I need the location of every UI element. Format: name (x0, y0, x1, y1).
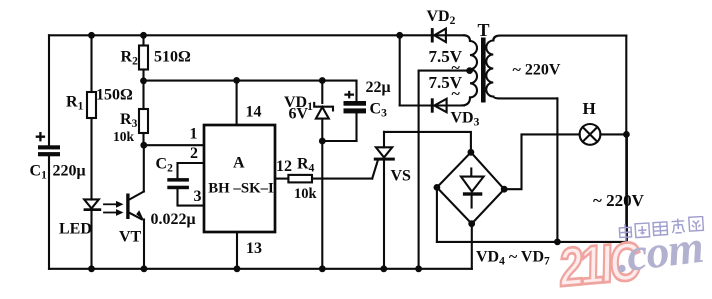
svg-text:A: A (233, 155, 245, 172)
diode VD3 (400, 98, 464, 112)
svg-text:C1: C1 (30, 163, 48, 182)
svg-text:22μ: 22μ (366, 79, 391, 96)
wire: R2 branch from top rail (142, 35, 144, 45)
svg-text:R3: R3 (120, 111, 138, 130)
junction R1 top rail (88, 32, 95, 39)
svg-text:C2: C2 (156, 156, 174, 175)
svg-text:12: 12 (276, 158, 292, 175)
svg-text:220μ: 220μ (53, 163, 86, 180)
svg-text:~: ~ (452, 86, 461, 103)
svg-text:T: T (478, 20, 490, 40)
wire: node to IC pin 1 (144, 144, 204, 146)
wire: VS anode to bridge top (384, 132, 471, 152)
junction bridge left corner (434, 184, 441, 191)
junction VT emitter ground (141, 265, 148, 272)
wire: bottom right corner up (same as right vertical) (626, 134, 628, 242)
svg-text:VD3: VD3 (451, 109, 480, 128)
wire: R1 branch top (90, 35, 92, 92)
wire: R1 to LED (90, 118, 92, 200)
svg-text:BH –SK–I: BH –SK–I (208, 181, 274, 197)
wire: centre tap of T to ground (419, 71, 470, 269)
wire: secondary bottom down to AC wire (556, 98, 558, 242)
wire: top rail from C1 branch to transformer (49, 34, 464, 36)
junction VS cathode ground (380, 265, 387, 272)
junction VD1 +6V rail (319, 77, 326, 84)
junction pin13 ground (234, 265, 241, 272)
wire: left vertical (C1 branch) upper (48, 35, 50, 146)
transformer T (462, 35, 626, 105)
junction bridge top corner (468, 149, 475, 156)
bridge rectifier VD4~VD7 (437, 152, 504, 223)
svg-text:VT: VT (119, 228, 142, 245)
junction rectifier feed top rail (396, 32, 403, 39)
svg-text:150Ω: 150Ω (96, 87, 133, 104)
svg-text:10k: 10k (294, 186, 318, 202)
wire: top-rail junction down to VD3 line (399, 35, 401, 105)
diode VD2 (431, 28, 446, 42)
wire: pin 13 (236, 232, 238, 269)
junction secondary return (554, 239, 561, 246)
capacitor C2 (167, 178, 189, 189)
wire: R3 bottom to node (142, 133, 144, 145)
plus C1 (36, 132, 45, 141)
svg-text:0.022μ: 0.022μ (151, 211, 196, 228)
svg-text:6V: 6V (289, 106, 309, 123)
svg-text:R4: R4 (297, 156, 315, 175)
junction bridge right corner (501, 186, 508, 193)
opto light arrows (104, 201, 124, 216)
wire: bottom ground rail (49, 268, 472, 270)
primary winding (7.5V side) (464, 35, 470, 41)
svg-text:~ 220V: ~ 220V (593, 191, 645, 210)
svg-text:LED: LED (59, 221, 92, 238)
wire: +6V horizontal rail (144, 80, 357, 82)
resistor R4 (288, 175, 312, 183)
svg-text:~ 220V: ~ 220V (513, 61, 561, 78)
resistor R3 (139, 109, 148, 133)
wire: lamp left to bridge right corner (504, 134, 579, 189)
wire: bridge left corner down (436, 187, 438, 242)
junction VD1/C3 bottom (319, 138, 326, 145)
capacitor C1 (38, 145, 60, 156)
wire: R2 to +6V node (142, 70, 144, 82)
core (481, 38, 486, 103)
wire: lamp right to 220V line (600, 133, 626, 135)
wire: pin 12 to R4 (275, 178, 288, 180)
svg-text:C3: C3 (370, 101, 388, 120)
wire: left vertical (C1 branch) lower (48, 156, 50, 268)
wire: pin 14 (236, 80, 238, 125)
junction centre-tap ground (415, 265, 422, 272)
zener VD1 (314, 81, 333, 141)
wire: C2 bottom to IC pin 3 (178, 189, 205, 205)
LED (optocoupler emitter) (84, 199, 102, 211)
capacitor C3 (344, 81, 367, 141)
svg-text:VD4 ~ VD7: VD4 ~ VD7 (476, 249, 550, 268)
svg-text:R2: R2 (121, 49, 139, 68)
junction bridge bottom corner (468, 220, 475, 227)
secondary winding (220V side) (486, 41, 493, 97)
resistor R1 (87, 92, 96, 118)
wire: ground rail up to bridge bottom (471, 224, 473, 269)
wire: R3 top (142, 81, 144, 109)
wire: LED to ground rail (90, 211, 92, 269)
svg-text:R1: R1 (66, 94, 84, 113)
wire: VT emitter down to ground (143, 220, 145, 269)
svg-text:2: 2 (190, 145, 198, 162)
wire: VS gate diagonal (372, 160, 378, 178)
svg-text:H: H (583, 99, 596, 118)
svg-text:VD2: VD2 (427, 8, 456, 27)
wire: VD1 node down to ground (321, 141, 323, 269)
node R3/pin1/VT collector (140, 142, 147, 149)
svg-text:13: 13 (246, 240, 262, 257)
junction VD1 branch ground (319, 265, 326, 272)
wire: bottom AC wire (437, 241, 627, 243)
resistor R2 (139, 46, 148, 70)
svg-text:10k: 10k (113, 129, 135, 144)
svg-text:14: 14 (246, 104, 262, 121)
watermark 21IC.com (559, 237, 638, 292)
plus C3 (344, 91, 354, 99)
wire: VD1/C3 bottom tie (322, 140, 356, 142)
junction R2/R3 +6V rail (140, 77, 147, 84)
junction lamp 220V line (623, 131, 630, 138)
wire: VT collector up to node (143, 145, 145, 191)
svg-text:3: 3 (194, 188, 202, 205)
junction pin14 +6V rail (233, 77, 240, 84)
transistor VT (photo) (126, 192, 144, 221)
svg-text:510Ω: 510Ω (154, 48, 191, 65)
lamp H (580, 124, 601, 145)
junction transformer centre tap (466, 67, 473, 74)
op-amp/IC A BH-SK-I (204, 125, 275, 232)
junction R2 top rail (140, 32, 147, 39)
junction LED ground (88, 265, 95, 272)
thyristor VS (374, 132, 395, 269)
svg-text:1: 1 (190, 125, 198, 142)
wire: R4 to VS gate (312, 178, 372, 180)
wire: right vertical 220V (625, 36, 627, 242)
svg-text:VS: VS (391, 168, 412, 185)
wire: IC pin 2 to C2 top (178, 163, 205, 178)
